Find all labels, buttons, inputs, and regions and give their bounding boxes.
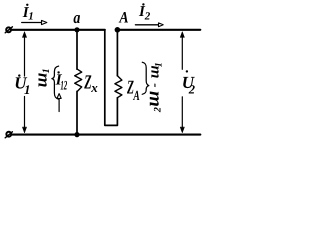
svg-text:x: x [90,80,98,95]
wire top-left [12,29,105,31]
svg-text:2: 2 [153,107,164,113]
label w1 (rotated, turns of common winding) [31,68,52,87]
brace w1 (left, common winding section) [52,66,59,99]
svg-text:1: 1 [41,68,52,73]
svg-text:2: 2 [188,82,195,96]
branch a: wire below Zx [76,91,78,134]
label w2-w1 (rotated, turns of series winding) [143,62,165,113]
svg-text:12: 12 [60,77,67,92]
svg-text:1: 1 [28,11,34,23]
svg-text:1: 1 [153,62,164,67]
svg-text:A: A [119,9,129,26]
node a [74,27,79,32]
resistor Zx [75,69,82,91]
label ZA [126,77,139,104]
label I12 [55,71,68,92]
branch a: wire above Zx [76,30,78,69]
svg-text:a: a [73,8,80,27]
wire top-right [117,29,200,31]
current arrow I1 [22,22,42,24]
wire dip (series winding path) [105,30,118,126]
voltage arrow U1 [24,34,26,77]
wire ZA to node A [116,30,118,76]
svg-text:2: 2 [144,11,151,23]
svg-text:ш: ш [31,73,51,88]
terminal bottom-left [6,132,11,137]
label I1 [22,4,34,23]
node junction bottom [74,132,79,137]
node A [115,27,121,33]
resistor ZA [115,76,122,98]
terminal top-left [6,27,11,32]
wire bottom [11,134,200,136]
current arrow I12 [58,99,60,112]
svg-text:A: A [133,89,140,104]
label Zx [84,71,99,95]
voltage arrow U2 [181,34,183,70]
svg-text:-: - [146,83,161,87]
label U1 [14,74,30,97]
label U2 [182,70,195,96]
label I2 [138,3,151,22]
brace w2-w1 (right, series winding section) [142,62,149,94]
svg-text:ш: ш [143,91,164,107]
current arrow I2 [135,24,158,26]
svg-text:1: 1 [24,82,31,97]
